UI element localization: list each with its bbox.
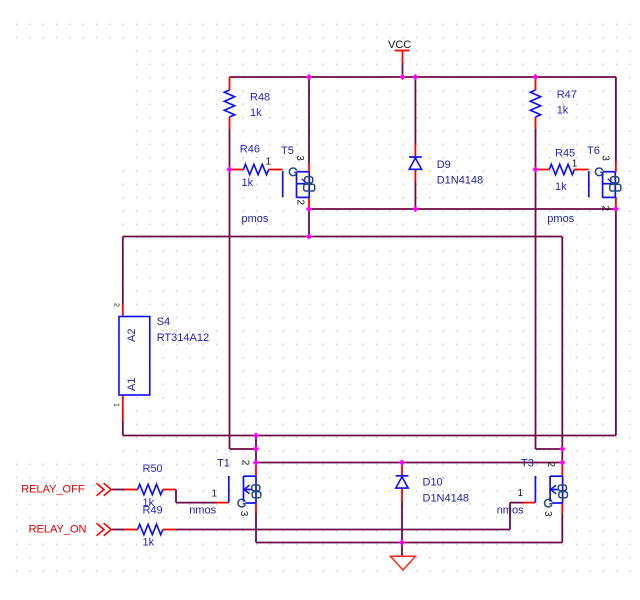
svg-text:R50: R50 [143,463,163,475]
svg-text:RELAY_ON: RELAY_ON [29,523,87,535]
svg-text:3: 3 [294,155,305,161]
svg-text:A2: A2 [126,329,138,342]
svg-text:3: 3 [600,155,611,161]
svg-text:1: 1 [266,157,272,168]
svg-text:2: 2 [239,460,250,466]
svg-text:1k: 1k [143,537,155,549]
svg-text:2: 2 [113,303,120,307]
svg-text:3: 3 [542,511,553,517]
svg-text:1: 1 [572,159,578,170]
svg-text:1k: 1k [242,177,254,189]
svg-text:VCC: VCC [388,39,411,51]
svg-text:S4: S4 [157,316,170,328]
svg-text:RELAY_OFF: RELAY_OFF [21,484,85,496]
svg-text:pmos: pmos [242,213,269,225]
svg-text:D1N4148: D1N4148 [423,493,469,505]
svg-text:3: 3 [238,511,249,517]
svg-text:1k: 1k [555,181,567,193]
svg-text:pmos: pmos [547,213,574,225]
svg-text:A1: A1 [126,378,138,391]
svg-text:T1: T1 [217,458,230,470]
svg-text:T5: T5 [281,145,294,157]
svg-text:R47: R47 [557,89,577,101]
svg-text:T6: T6 [587,145,600,157]
svg-text:T3: T3 [521,458,534,470]
svg-text:nmos: nmos [189,505,216,517]
svg-text:1: 1 [212,489,218,500]
svg-text:1k: 1k [557,105,569,117]
svg-text:nmos: nmos [497,505,524,517]
svg-text:1k: 1k [250,107,262,119]
svg-text:2: 2 [294,200,305,206]
svg-text:1: 1 [113,403,120,407]
svg-text:2: 2 [599,206,610,212]
svg-text:R48: R48 [250,92,270,104]
svg-text:RT314A12: RT314A12 [157,332,209,344]
svg-text:1: 1 [518,488,524,499]
svg-text:D10: D10 [423,477,443,489]
svg-text:D9: D9 [437,159,451,171]
svg-text:R46: R46 [240,144,260,156]
svg-text:2: 2 [545,462,556,468]
svg-text:R49: R49 [143,505,163,517]
svg-text:D1N4148: D1N4148 [437,175,483,187]
